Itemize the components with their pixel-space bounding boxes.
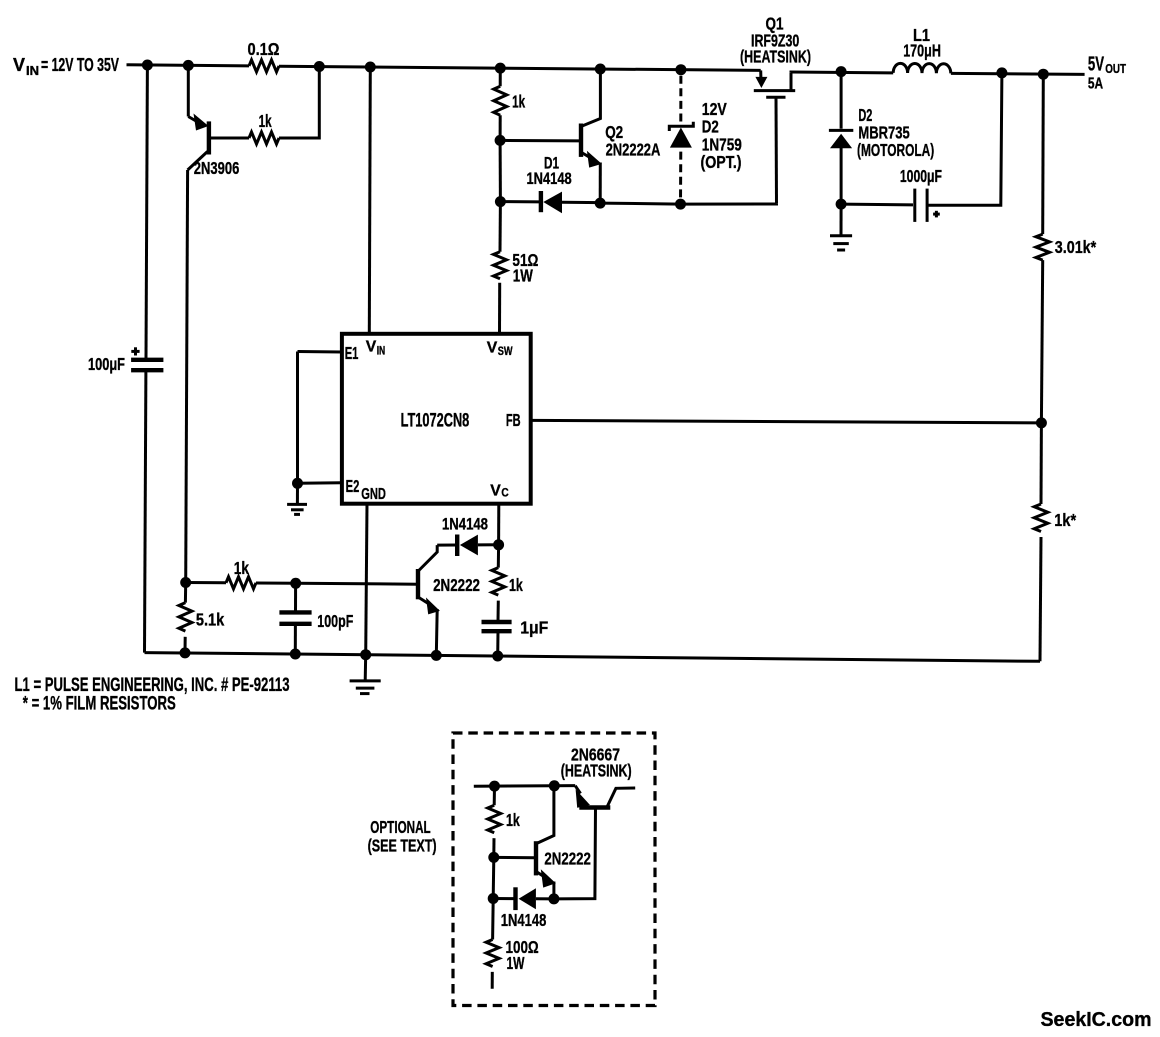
ground MBR735 <box>830 204 852 250</box>
wire E1 to E2 column <box>296 352 299 484</box>
resistor R 51ohm 1W <box>494 252 507 279</box>
resistor R 1k Q2 base <box>494 86 507 115</box>
wire left column upper <box>146 65 147 358</box>
svg-text:2N2222A: 2N2222A <box>606 140 661 160</box>
capacitor C 100pF <box>279 583 311 654</box>
transistor Q3 2N2222 <box>418 545 440 656</box>
node FB <box>1036 417 1047 428</box>
node optional rail/1k <box>489 781 500 792</box>
node E2 ground <box>292 478 303 489</box>
svg-text:5V: 5V <box>1088 54 1105 76</box>
svg-text:= 12V TO 35V: = 12V TO 35V <box>41 55 119 75</box>
ground E2 <box>287 483 307 514</box>
resistor R 1k feedback <box>249 132 279 144</box>
diode D 1N4148 optional <box>493 887 554 910</box>
svg-text:E1: E1 <box>345 343 359 363</box>
wire Q2 base <box>500 139 581 143</box>
node rail/2N3906 emitter <box>183 60 194 71</box>
transistor Q2 2N2222A <box>581 69 602 203</box>
svg-text:1k: 1k <box>234 558 249 578</box>
wire GND pin down <box>366 504 367 655</box>
svg-text:5A: 5A <box>1088 75 1103 92</box>
resistor R 0.1ohm <box>249 60 279 72</box>
wire VIN pin column <box>369 67 370 334</box>
wire VIN rail right of 0.1ohm <box>279 66 761 70</box>
node optional 1k / Q4 base <box>488 852 499 863</box>
node 100pF <box>290 578 301 589</box>
svg-text:1k: 1k <box>506 810 520 830</box>
IC U1 LT1072CN8 <box>342 334 531 504</box>
svg-text:1k: 1k <box>512 92 525 112</box>
svg-text:100pF: 100pF <box>317 611 353 631</box>
diode D 1N4148 at VC <box>437 535 498 557</box>
wire E2 pin <box>298 481 343 485</box>
node bottom/100pF <box>290 649 301 660</box>
label VIN = 12V TO 35V <box>13 55 119 78</box>
svg-text:1N4148: 1N4148 <box>442 516 488 534</box>
node optional rail/Q4 collector <box>549 780 560 791</box>
svg-text:SW: SW <box>498 346 513 358</box>
node optional diode right <box>548 893 559 904</box>
node optional diode left <box>488 893 499 904</box>
wire 3.01k to FB node <box>1041 260 1042 423</box>
zener diode D2 1N759 (dashed column) <box>669 70 693 204</box>
node Q2 base <box>495 135 506 146</box>
wire 2N3906 collector down <box>186 170 188 583</box>
svg-text:(MOTOROLA): (MOTOROLA) <box>857 140 934 160</box>
wire 1k to rail <box>279 67 319 139</box>
node rail/1k Q2 column <box>495 63 506 74</box>
svg-text:1k: 1k <box>259 111 272 131</box>
node MBR735 / 1000uF <box>836 199 847 210</box>
wire 51ohm to VSW pin <box>498 283 501 334</box>
capacitor C 100uF <box>131 360 163 370</box>
wire Q2 column upper (rail to 1k) <box>499 68 502 86</box>
svg-text:OUT: OUT <box>1105 61 1126 76</box>
resistor R 1k* <box>1034 504 1048 532</box>
svg-text:170μH: 170μH <box>903 41 941 61</box>
wire Q4 base <box>494 856 535 859</box>
svg-text:1W: 1W <box>507 953 525 973</box>
wire 1k to Q2 base node <box>499 115 502 140</box>
label VIN pin <box>366 339 386 358</box>
svg-text:0.1Ω: 0.1Ω <box>248 39 280 59</box>
capacitor C 1uF <box>482 622 512 631</box>
resistor R 100ohm 1W <box>486 899 499 989</box>
node bottom/1uF <box>492 651 503 662</box>
wire bottom rail <box>145 653 1041 662</box>
transistor Q4 2N2222 optional <box>536 786 556 899</box>
wire 1k to 1uF <box>497 601 500 622</box>
wire L1 to output <box>951 73 1085 74</box>
capacitor C 1000uF <box>915 189 927 222</box>
ground bottom rail <box>350 655 381 694</box>
node driver row / zener <box>675 199 686 210</box>
label 5VOUT <box>1088 54 1126 93</box>
node rail/zener column <box>675 64 686 75</box>
wire optional top rail <box>474 784 575 788</box>
node output/divider <box>1038 69 1049 80</box>
svg-text:1k*: 1k* <box>1054 510 1076 530</box>
svg-text:V: V <box>366 339 377 356</box>
wire VC pin down <box>497 504 500 545</box>
resistor R 1k VC <box>492 568 505 596</box>
wire optional left column <box>492 857 496 898</box>
wire 51ohm column upper <box>499 202 502 252</box>
wire driver row to Q1 gate <box>681 202 777 205</box>
wire 1000uF right to output <box>927 73 1002 205</box>
wire VIN rail <box>127 65 250 66</box>
svg-text:1N4148: 1N4148 <box>501 910 547 930</box>
svg-text:V: V <box>490 482 501 499</box>
svg-text:IN: IN <box>26 64 39 78</box>
wire divider column upper <box>1041 74 1045 234</box>
svg-text:OPTIONAL: OPTIONAL <box>370 817 431 837</box>
node bottom/GND pin <box>360 649 371 660</box>
svg-text:GND: GND <box>361 486 386 503</box>
optional circuit dashed box <box>453 733 655 1006</box>
svg-text:V: V <box>487 340 498 357</box>
node rail/VIN pin <box>365 62 376 73</box>
svg-text:(OPT.): (OPT.) <box>701 152 742 172</box>
wire left column lower <box>145 370 146 652</box>
svg-text:1000μF: 1000μF <box>900 166 942 186</box>
wire FB pin <box>531 420 1042 423</box>
svg-text:1k: 1k <box>509 575 523 595</box>
node bottom/Q3 emitter <box>431 650 442 661</box>
wire node to 1k <box>186 581 226 584</box>
svg-text:(HEATSINK): (HEATSINK) <box>561 761 632 781</box>
svg-text:(HEATSINK): (HEATSINK) <box>740 46 811 66</box>
svg-text:2N3906: 2N3906 <box>194 158 240 178</box>
wire Q1 drain to L1 <box>791 71 893 75</box>
diode D1 1N4148 <box>500 191 600 213</box>
svg-text:V: V <box>13 55 25 75</box>
wire 1000uF left <box>841 203 913 207</box>
svg-text:3.01k*: 3.01k* <box>1055 237 1097 257</box>
node rail/left column <box>142 60 153 71</box>
transistor Q1 IRF9Z30 p-MOSFET <box>754 70 795 97</box>
svg-text:1W: 1W <box>513 266 533 286</box>
svg-text:E2: E2 <box>346 476 360 496</box>
wire Q1 gate down <box>775 97 779 204</box>
wire FB node to 1k* <box>1040 423 1043 504</box>
svg-text:LT1072CN8: LT1072CN8 <box>401 411 470 432</box>
node Q2 base / 51ohm <box>495 196 506 207</box>
svg-text:100μF: 100μF <box>88 354 125 374</box>
node output/1000uF <box>996 67 1007 78</box>
svg-text:SeekIC.com: SeekIC.com <box>1041 1009 1152 1031</box>
wire 1k* to bottom rail <box>1040 537 1041 661</box>
resistor R 5.1k <box>179 583 192 653</box>
label + 1000uF <box>933 211 940 218</box>
node rail/Q2 collector <box>595 64 606 75</box>
label VC pin <box>490 482 508 499</box>
resistor R 3.01k <box>1036 234 1050 260</box>
wire VC to 1k <box>497 545 500 568</box>
wire driver row to zener <box>600 203 680 204</box>
wire E1 pin <box>298 350 343 354</box>
wire 2N6667 base down <box>554 808 596 899</box>
svg-text:5.1k: 5.1k <box>196 609 225 629</box>
node D1 / Q2 emitter <box>595 198 606 209</box>
wire 2N3906 base to 1k <box>209 137 249 140</box>
svg-text:FB: FB <box>506 410 521 430</box>
wire Q2 base node down <box>499 140 502 201</box>
svg-text:1N4148: 1N4148 <box>527 170 572 188</box>
svg-text:1μF: 1μF <box>520 618 548 638</box>
svg-text:2N2222: 2N2222 <box>433 575 480 595</box>
node output/MBR735 <box>836 66 847 77</box>
svg-text:* = 1% FILM RESISTORS: * = 1% FILM RESISTORS <box>23 693 176 715</box>
svg-text:C: C <box>501 487 508 499</box>
wire 1uF to bottom rail <box>496 631 499 656</box>
wire 1k to 100pF node <box>256 582 296 585</box>
wire 100pF node to Q3 base <box>296 582 418 586</box>
transistor Q5 2N6667 <box>575 786 635 808</box>
node left column / 1k base row <box>180 577 191 588</box>
svg-text:2N2222: 2N2222 <box>544 849 591 869</box>
label + 100uF <box>131 347 139 355</box>
node rail/1k feedback <box>314 61 325 72</box>
resistor R 1k optional <box>488 786 501 857</box>
svg-text:IN: IN <box>377 345 386 357</box>
resistor R 1k base row <box>226 577 256 589</box>
diode D2 MBR735 <box>829 72 853 205</box>
svg-text:(SEE TEXT): (SEE TEXT) <box>368 836 437 856</box>
label VSW pin <box>487 340 513 359</box>
inductor L1 170uH <box>893 63 951 73</box>
node VC <box>493 539 504 550</box>
transistor Q 2N3906 <box>188 65 209 170</box>
node bottom/5.1k <box>180 647 191 658</box>
